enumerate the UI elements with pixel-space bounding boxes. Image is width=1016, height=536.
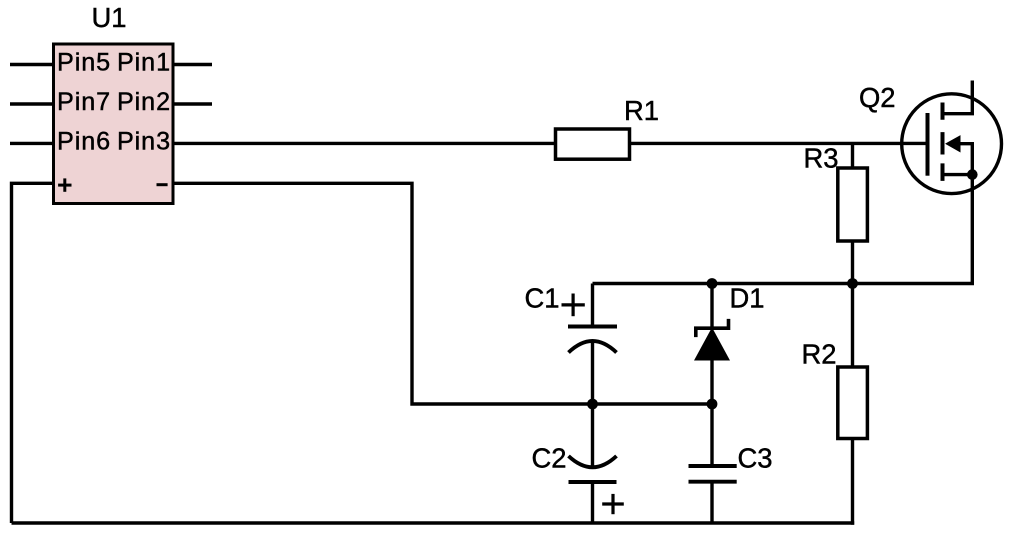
junction dot C1-C2 node <box>587 399 598 410</box>
svg-text:C1: C1 <box>525 283 560 314</box>
wire U1 minus to middle rail <box>173 183 593 404</box>
wire R2 top <box>851 284 854 368</box>
wire middle rail C1 to D1 <box>593 402 713 405</box>
U1 minus terminal mark <box>157 183 168 186</box>
label R1 <box>624 95 659 126</box>
label D1 <box>730 282 765 313</box>
wire Pin2 right stub <box>173 102 212 105</box>
svg-text:Pin2: Pin2 <box>117 88 171 116</box>
pin label Pin1 <box>117 49 171 77</box>
svg-text:R1: R1 <box>624 95 659 126</box>
label Q2 <box>859 82 896 113</box>
label R3 <box>804 142 839 173</box>
pin label Pin6 <box>57 128 111 156</box>
wire R3 bottom <box>851 241 854 284</box>
svg-text:Pin7: Pin7 <box>57 88 111 116</box>
wire Pin6 left stub <box>10 142 54 145</box>
svg-text:D1: D1 <box>730 282 765 313</box>
wire top rail C1 to Q2 source <box>593 175 973 284</box>
U1 plus terminal mark <box>58 178 71 191</box>
pin label Pin3 <box>117 128 171 156</box>
label C1 <box>525 283 560 314</box>
wire U1 plus to bottom rail <box>12 183 54 523</box>
svg-text:R2: R2 <box>802 339 837 370</box>
capacitor C1 <box>568 284 617 405</box>
junction dot D1-C3 node <box>707 399 718 410</box>
wire Pin3 to R1 <box>173 142 556 145</box>
label C2 <box>532 442 567 473</box>
Q2 body arrow <box>946 136 960 152</box>
capacitor C2 plus sign <box>602 494 624 514</box>
wire R2 bottom <box>851 439 854 525</box>
svg-text:Pin3: Pin3 <box>117 128 171 156</box>
svg-text:Q2: Q2 <box>859 82 896 113</box>
label C3 <box>738 442 773 473</box>
resistor R3 <box>838 168 868 241</box>
svg-text:Pin6: Pin6 <box>57 128 111 156</box>
capacitor C1 plus sign <box>562 294 585 317</box>
svg-text:C3: C3 <box>738 442 773 473</box>
svg-text:U1: U1 <box>92 2 127 33</box>
junction dot D1 top <box>707 278 718 289</box>
capacitor C2 <box>569 404 617 523</box>
pin label Pin5 <box>57 49 111 77</box>
pin label Pin2 <box>117 88 171 116</box>
label U1 <box>92 2 127 33</box>
Q2 gate bar <box>926 113 930 176</box>
Q2 body circle <box>902 94 1002 194</box>
wire R3 top <box>851 143 854 168</box>
transistor Q2 mosfet <box>902 81 1002 194</box>
wire Pin7 left stub <box>10 102 54 105</box>
wire bottom rail <box>12 521 855 524</box>
svg-text:Pin5: Pin5 <box>57 49 111 77</box>
wire Pin1 right stub <box>173 63 212 66</box>
svg-text:R3: R3 <box>804 142 839 173</box>
resistor R1 <box>556 129 630 159</box>
zener diode D1 <box>694 284 730 405</box>
resistor R2 <box>838 367 868 439</box>
svg-text:C2: C2 <box>532 442 567 473</box>
wire R1 to Q2 gate <box>630 142 928 145</box>
Q2 source dot <box>967 169 978 180</box>
Q2 channel segments <box>941 103 945 181</box>
ic U1 box <box>54 44 174 204</box>
Q2 source connection <box>943 173 973 176</box>
junction dot R3-R2 node <box>847 278 858 289</box>
capacitor C3 <box>689 404 737 523</box>
wire Pin5 left stub <box>10 63 54 66</box>
pin label Pin7 <box>57 88 111 116</box>
Q2 drain connection <box>943 81 973 114</box>
label R2 <box>802 339 837 370</box>
svg-text:Pin1: Pin1 <box>117 49 171 77</box>
